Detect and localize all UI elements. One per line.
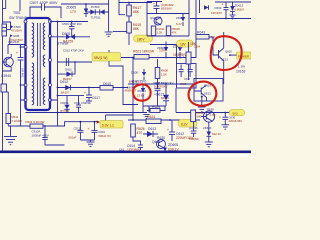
svg-text:POWER: POWER <box>238 55 249 59</box>
svg-text:940: 940 <box>197 115 202 119</box>
svg-text:68K: 68K <box>133 27 140 31</box>
svg-text:5.3V 1.2: 5.3V 1.2 <box>102 124 114 128</box>
svg-text:+: + <box>16 51 18 55</box>
svg-text:220UF/16V: 220UF/16V <box>229 119 243 123</box>
svg-text:+D617: +D617 <box>154 93 164 97</box>
svg-text:D611: D611 <box>65 68 72 72</box>
svg-text:SW TRANS: SW TRANS <box>9 16 28 20</box>
svg-text:C512: C512 <box>74 126 81 130</box>
svg-text:Q602: Q602 <box>225 50 232 54</box>
svg-text:B+(135V): B+(135V) <box>132 80 146 84</box>
svg-text:0.22/2W: 0.22/2W <box>12 119 23 123</box>
svg-text:18V: 18V <box>180 43 187 47</box>
svg-text:+: + <box>153 2 155 6</box>
svg-text:2SK2645: 2SK2645 <box>8 40 20 44</box>
svg-text:+: + <box>219 116 221 120</box>
svg-text:6.8(5)V: 6.8(5)V <box>235 7 245 11</box>
svg-text:Q604: Q604 <box>152 140 160 144</box>
svg-text:ZD605: ZD605 <box>66 6 76 10</box>
svg-text:R621 18K/2W: R621 18K/2W <box>133 50 155 54</box>
svg-text:C3945: C3945 <box>1 74 11 78</box>
svg-text:SE13: SE13 <box>221 58 228 62</box>
svg-text:8.2V: 8.2V <box>181 123 188 127</box>
svg-text:R624: R624 <box>147 115 155 119</box>
svg-text:C61: C61 <box>119 148 125 152</box>
svg-text:TLP511: TLP511 <box>91 16 101 20</box>
svg-text:180V: 180V <box>137 38 145 42</box>
svg-text:C617: C617 <box>184 77 191 81</box>
svg-text:C513 470P 2KV: C513 470P 2KV <box>63 49 84 53</box>
svg-text:D608: D608 <box>131 71 138 75</box>
svg-text:1000uF 400V: 1000uF 400V <box>32 133 49 137</box>
svg-text:1CE/50V: 1CE/50V <box>127 148 141 152</box>
svg-text:SE13: SE13 <box>204 92 211 96</box>
svg-text:632.4V: 632.4V <box>212 132 221 136</box>
svg-text:+: + <box>84 91 86 95</box>
svg-text:D616a: D616a <box>61 101 69 105</box>
svg-text:C507 470P 400V: C507 470P 400V <box>30 1 59 5</box>
svg-text:15K: 15K <box>190 42 197 46</box>
svg-text:R643: R643 <box>197 31 205 35</box>
svg-text:1.7W: 1.7W <box>210 114 216 117</box>
svg-text:12B(50): 12B(50) <box>189 137 199 141</box>
svg-text:D612: D612 <box>60 80 68 84</box>
svg-text:(R)BA157: (R)BA157 <box>125 89 137 93</box>
svg-text:L:on: L:on <box>238 65 245 69</box>
svg-text:R504 5.2K/3W: R504 5.2K/3W <box>26 120 45 124</box>
svg-text:68K: 68K <box>133 10 140 14</box>
svg-text:55V(1 W): 55V(1 W) <box>94 56 107 60</box>
svg-text:PC504: PC504 <box>91 5 100 9</box>
svg-text:12F/16V: 12F/16V <box>211 11 222 15</box>
svg-text:1.2K: 1.2K <box>157 31 163 35</box>
svg-text:6.2V: 6.2V <box>176 22 182 26</box>
svg-text:+: + <box>88 127 90 131</box>
svg-text:501uF: 501uF <box>68 136 76 140</box>
svg-text:ZD604: ZD604 <box>203 126 212 130</box>
svg-text:820/16V: 820/16V <box>161 7 172 11</box>
svg-text:Q601: Q601 <box>150 16 157 20</box>
svg-text:1.5K: 1.5K <box>161 72 167 76</box>
svg-text:500uF XV: 500uF XV <box>98 134 111 138</box>
svg-text:17V: 17V <box>70 10 77 14</box>
svg-text:BTW38: BTW38 <box>57 42 68 46</box>
svg-text:+: + <box>222 3 224 7</box>
svg-text:T501: T501 <box>13 11 21 15</box>
svg-text:639.1V: 639.1V <box>168 148 179 152</box>
svg-text:10163: 10163 <box>236 70 246 74</box>
svg-text:C630: C630 <box>229 116 236 120</box>
svg-text:+: + <box>167 128 169 132</box>
svg-text:ZD605: ZD605 <box>168 143 178 147</box>
svg-text:C611 470P: C611 470P <box>74 101 87 105</box>
svg-text:D613: D613 <box>148 127 156 131</box>
svg-text:470: 470 <box>137 131 143 135</box>
svg-text:13V: 13V <box>159 49 166 53</box>
svg-text:BA157: BA157 <box>61 91 70 95</box>
svg-text:471/2KV: 471/2KV <box>11 29 22 33</box>
svg-text:C617: C617 <box>92 96 100 100</box>
svg-text:D633: D633 <box>215 6 222 10</box>
svg-text:47K: 47K <box>172 31 177 35</box>
